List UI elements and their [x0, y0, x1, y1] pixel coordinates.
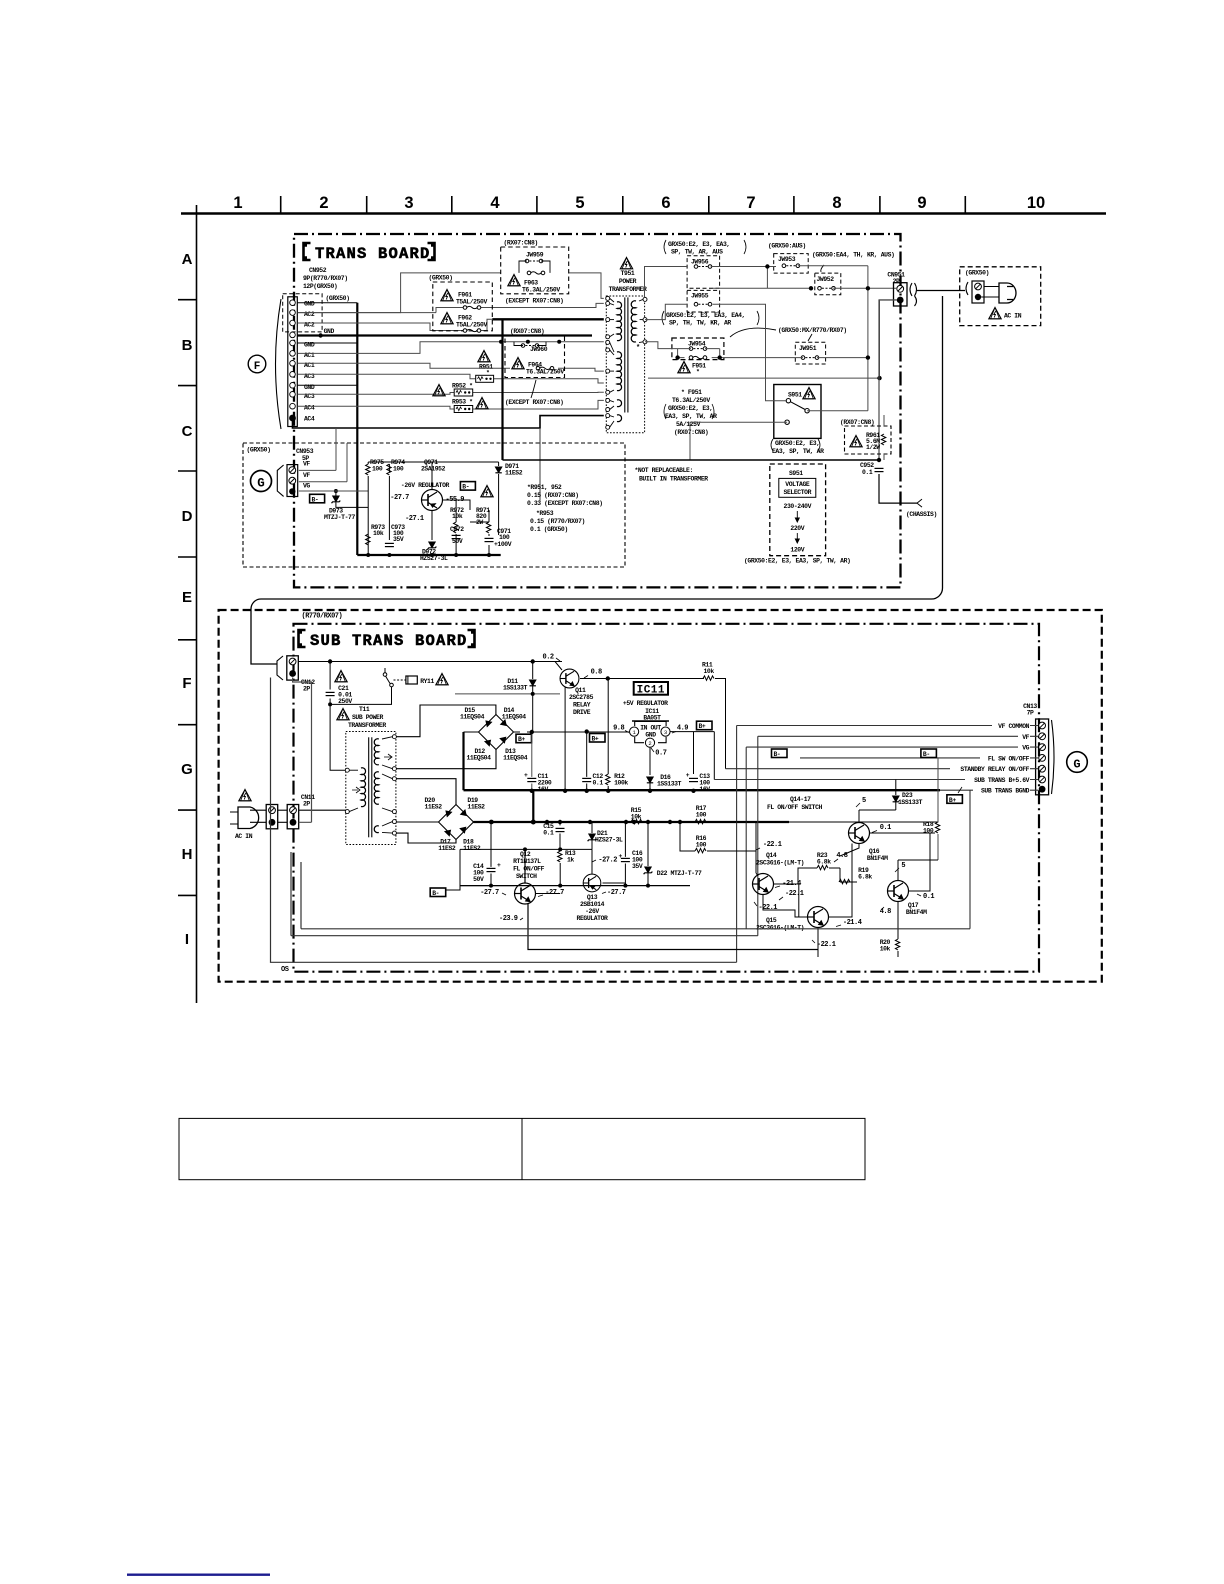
jumper JW952 box: [815, 273, 841, 295]
jumper JW954 box: [672, 338, 724, 360]
svg-text:9: 9: [917, 194, 926, 212]
svg-text:1SS133T: 1SS133T: [657, 781, 682, 788]
primary stubs: [610, 298, 614, 427]
transistor Q11: [560, 669, 579, 688]
svg-text:2P: 2P: [303, 801, 310, 808]
resistor R19: [858, 867, 872, 881]
svg-text:(CHASSIS): (CHASSIS): [906, 511, 937, 518]
svg-text:STANDBY RELAY ON/OFF: STANDBY RELAY ON/OFF: [960, 766, 1029, 773]
resistor R17: [696, 805, 707, 819]
svg-text:0.1 (GRX50): 0.1 (GRX50): [530, 526, 568, 533]
svg-text:0.33 (EXCEPT RX07:CN8): 0.33 (EXCEPT RX07:CN8): [527, 500, 603, 507]
svg-text:BUILT IN TRANSFORMER: BUILT IN TRANSFORMER: [639, 476, 708, 483]
svg-text:2SC3616-(LM-T): 2SC3616-(LM-T): [756, 860, 804, 867]
wires AC IN to CN11: [250, 810, 287, 822]
resistor R975: [370, 459, 384, 473]
bottom rail 885.6: [460, 885, 690, 887]
CN13 signal labels: [960, 723, 1029, 794]
junction dots on rail: [490, 820, 494, 824]
svg-text:SELECTOR: SELECTOR: [784, 489, 812, 496]
svg-text:-27.7: -27.7: [390, 494, 409, 502]
sub trans inner dash-dot box: [294, 624, 1040, 972]
svg-text:* F951: * F951: [681, 389, 702, 396]
svg-text:11ES2: 11ES2: [463, 845, 481, 852]
resistor R15: [631, 807, 642, 821]
fuse F961: [463, 306, 481, 310]
svg-text:(R770/RX07): (R770/RX07): [302, 613, 343, 621]
zener D972: [428, 542, 437, 549]
svg-text:(GRX50): (GRX50): [965, 270, 989, 277]
svg-text:4: 4: [490, 194, 500, 212]
boxed B+: [516, 734, 532, 743]
svg-text:(GRX50:EA4, TH, KR, AUS): (GRX50:EA4, TH, KR, AUS): [812, 252, 894, 259]
svg-text:VF: VF: [303, 461, 310, 468]
svg-text:+: +: [497, 862, 501, 869]
svg-text:2P: 2P: [303, 686, 310, 693]
warning triangle near R971: [481, 486, 493, 497]
svg-text:-22.1: -22.1: [759, 904, 778, 912]
fuse F962: [463, 329, 481, 333]
warning triangle F963: [508, 275, 520, 286]
svg-text:9.8: 9.8: [613, 725, 624, 733]
wire Q12 collector/emitter: [525, 849, 818, 949]
svg-text:REGULATOR: REGULATOR: [577, 915, 608, 922]
svg-text:100: 100: [696, 842, 707, 849]
svg-text:JW956: JW956: [691, 259, 709, 266]
svg-text:B: B: [182, 337, 193, 354]
resistor R16: [696, 835, 707, 849]
primary arrow: [352, 787, 360, 793]
svg-text:SP, TH, TW, KR, AR: SP, TH, TW, KR, AR: [669, 320, 731, 327]
svg-text:0.15 (RX07:CN8): 0.15 (RX07:CN8): [527, 492, 579, 499]
boxed B+ mid: [590, 734, 606, 743]
svg-text:EA3, SP, TW, AR: EA3, SP, TW, AR: [772, 448, 824, 455]
bracket F: [276, 299, 282, 429]
label Q14: [756, 852, 804, 867]
svg-text:T6.3AL/250V: T6.3AL/250V: [522, 287, 560, 294]
thick B- drop from bridge1: [462, 732, 464, 790]
sub trans outer dashed box: [219, 610, 1102, 982]
svg-text:SUB TRANS BGND: SUB TRANS BGND: [981, 787, 1030, 794]
secondary stubs: [639, 299, 643, 342]
svg-text:JW959: JW959: [526, 252, 544, 259]
svg-text:Q16: Q16: [869, 848, 880, 855]
primary winding group 4: [617, 415, 622, 422]
label Q16: [867, 848, 888, 862]
grey return wire CN12 bottom: [293, 678, 312, 823]
resistor R18: [923, 821, 934, 835]
svg-text:GND: GND: [304, 301, 315, 308]
boxed B-: [460, 482, 475, 491]
svg-text:TRANSFORMER: TRANSFORMER: [609, 286, 647, 293]
capacitor C11: [538, 773, 552, 793]
horizontal rail at 846: [460, 849, 592, 885]
svg-text:T951: T951: [621, 270, 635, 277]
svg-text:F962: F962: [458, 315, 472, 322]
svg-text:B-: B-: [462, 484, 469, 491]
svg-text:2: 2: [648, 740, 651, 747]
title SUB TRANS BOARD: [299, 630, 475, 650]
CN13 bracket: [1052, 720, 1055, 794]
wire CN951 bottom to C952 (grey): [879, 300, 897, 460]
switch S951 box: [774, 385, 821, 439]
svg-text:2: 2: [319, 194, 328, 212]
svg-text:JW953: JW953: [778, 256, 796, 263]
boxed B- left: [430, 888, 446, 897]
svg-text:BN1F4M: BN1F4M: [867, 855, 888, 862]
svg-text:C972: C972: [450, 526, 464, 533]
arrows: [795, 511, 799, 543]
circled G: [251, 471, 272, 492]
svg-text:AC IN: AC IN: [1004, 313, 1022, 320]
svg-text:F: F: [182, 675, 191, 692]
title TRANS BOARD: [304, 243, 435, 263]
junction B+ rail left: [530, 730, 534, 734]
svg-text:MTZJ-T-77: MTZJ-T-77: [324, 514, 355, 521]
wire CN12 top rail: [298, 661, 562, 663]
svg-text:AC IN: AC IN: [235, 833, 253, 840]
svg-text:0.1: 0.1: [880, 824, 891, 832]
dashed link to RY11: [394, 679, 406, 681]
fuse F951: [689, 356, 707, 360]
svg-text:1SS133T: 1SS133T: [898, 799, 923, 806]
svg-text:10k: 10k: [704, 668, 715, 675]
connector CN952 label: [303, 267, 348, 290]
leader to B+: [958, 787, 962, 793]
svg-text:-26V REGULATOR: -26V REGULATOR: [401, 482, 450, 489]
svg-text:F: F: [254, 361, 261, 373]
CN12 filled pin: [289, 670, 296, 677]
svg-text:50V: 50V: [473, 876, 484, 883]
svg-text:JW951: JW951: [799, 345, 817, 352]
boxed B-: [310, 494, 325, 503]
wires bridge1: [396, 705, 520, 769]
svg-text:-23.9: -23.9: [499, 915, 518, 923]
footer blue line: [127, 1574, 270, 1576]
svg-text:0.1: 0.1: [593, 780, 604, 787]
svg-text:12P(GRX50): 12P(GRX50): [303, 283, 337, 290]
svg-text:I: I: [185, 931, 189, 948]
T11 primary stubs: [349, 770, 358, 811]
svg-text:T6.3AL/250V: T6.3AL/250V: [672, 397, 710, 404]
svg-text:OS: OS: [281, 966, 289, 974]
note F951: [664, 389, 717, 436]
svg-text:100k: 100k: [614, 780, 628, 787]
svg-text:0.8: 0.8: [591, 669, 602, 677]
svg-text:11EQS04: 11EQS04: [502, 714, 527, 721]
warning triangle F951: [678, 362, 690, 373]
transistor Q12: [515, 883, 536, 904]
svg-text:10: 10: [1027, 194, 1045, 212]
svg-text:RY11: RY11: [420, 678, 434, 685]
ground bus thick: [464, 789, 941, 791]
transistor Q17: [888, 881, 909, 902]
main return wire (thick) from bus to selector: [503, 459, 880, 461]
label Q17: [906, 902, 927, 916]
trans board outline: [294, 234, 901, 587]
connector CN11 label: [301, 794, 315, 808]
svg-text:DRIVE: DRIVE: [573, 709, 591, 716]
svg-text:SUB POWER: SUB POWER: [352, 714, 383, 721]
bracket: [966, 282, 968, 295]
svg-text:CN952: CN952: [309, 267, 327, 274]
svg-text:GND: GND: [324, 328, 335, 335]
labels D20 D19 D17 D18: [425, 797, 443, 811]
relay coil RY11 box: [406, 676, 417, 684]
svg-text:-22.1: -22.1: [817, 941, 836, 949]
plug wires: [984, 286, 999, 288]
label C21: [338, 685, 352, 705]
wire AC1 pin7 to F964: [298, 363, 604, 371]
svg-text:0.7: 0.7: [655, 750, 666, 758]
wire IC11 out to C13/B+: [670, 732, 714, 780]
svg-text:SP, TW, AR, AUS: SP, TW, AR, AUS: [671, 249, 723, 256]
CN953 pins: [289, 467, 296, 474]
resistor R12: [614, 773, 628, 787]
wire D973: [336, 491, 368, 507]
svg-text:10k: 10k: [880, 946, 891, 953]
svg-text:+5V REGULATOR: +5V REGULATOR: [623, 700, 668, 707]
circled F: [248, 355, 266, 373]
svg-text:2SC3616-(LM-T): 2SC3616-(LM-T): [756, 925, 804, 932]
wire Q11 emitter down to bus: [564, 688, 566, 791]
wire GND pin5 to bus: [298, 342, 358, 344]
svg-text:100: 100: [393, 466, 404, 473]
svg-text:(RX07:CN8): (RX07:CN8): [674, 429, 708, 436]
svg-text:0.1: 0.1: [923, 893, 934, 901]
zener D973: [334, 489, 338, 493]
svg-text:(GRX50:AUS): (GRX50:AUS): [768, 243, 806, 250]
svg-text:F963: F963: [524, 280, 538, 287]
svg-text:IC11: IC11: [637, 685, 665, 697]
svg-text:B-: B-: [312, 496, 319, 503]
wires secondary to jumpers: [645, 266, 898, 460]
plug symbol: [999, 283, 1016, 303]
resistor R23: [817, 852, 831, 866]
wires bridge2: [396, 779, 456, 843]
fuse F964: [536, 367, 554, 371]
thick wire F962 out to transformer: [492, 318, 604, 320]
svg-text:220V: 220V: [790, 525, 804, 532]
IC11 pin 1: [630, 727, 639, 736]
AC plug screw pin: [975, 283, 982, 290]
svg-text:5: 5: [901, 862, 905, 870]
jumper JW955 box: [687, 290, 720, 312]
connector CN952 pin 12 (filled): [289, 415, 296, 422]
svg-text:H: H: [182, 846, 193, 863]
connector box 1: [266, 805, 278, 829]
resistor R974: [391, 459, 405, 473]
IC11 body: [632, 721, 669, 743]
svg-text:11ES2: 11ES2: [425, 804, 443, 811]
svg-text:-22.1: -22.1: [785, 890, 804, 898]
svg-text:(RX07:CN8): (RX07:CN8): [840, 419, 874, 426]
svg-text:VOLTAGE: VOLTAGE: [785, 481, 810, 488]
svg-text:B-: B-: [774, 751, 781, 758]
label IC11 BA05T: [643, 708, 661, 722]
svg-text:F964: F964: [528, 362, 542, 369]
svg-text:(RX07:CN8): (RX07:CN8): [504, 240, 538, 247]
column ticks: [281, 196, 966, 213]
svg-text:Q17: Q17: [908, 902, 919, 909]
transistor Q16: [849, 823, 870, 844]
zener D22: [644, 867, 653, 874]
CN951 filled pin: [897, 297, 904, 304]
regulator wires: [368, 462, 498, 555]
svg-text:*R953: *R953: [536, 510, 554, 517]
connector CN13 body: [1036, 719, 1049, 795]
jumper JW953 box: [774, 254, 809, 274]
connector CN953 body: [287, 465, 298, 497]
svg-text:VF: VF: [1022, 734, 1029, 741]
connector CN952 body: [288, 297, 298, 427]
GND bus vertical (thick): [356, 303, 358, 555]
secondary terminals: [643, 297, 647, 343]
wire AC plug down to chassis: [251, 296, 943, 658]
label below S951: [771, 439, 824, 455]
svg-text:GND: GND: [645, 732, 656, 739]
leader curve: [730, 328, 776, 337]
CN953 labels: [303, 461, 310, 490]
wire relay to transformer: [330, 687, 391, 704]
svg-text:B+: B+: [699, 723, 706, 730]
svg-text:-22.1: -22.1: [763, 841, 782, 849]
CN952 pin labels: [304, 301, 334, 423]
svg-text:S951: S951: [789, 470, 803, 477]
label Q13: [577, 894, 608, 922]
secondary winding: [631, 301, 636, 342]
T11 secondary winding 3: [374, 826, 379, 833]
warning triangle F961: [441, 290, 453, 301]
AC plug connector body: [972, 281, 984, 303]
svg-text:B-: B-: [432, 890, 439, 897]
svg-text:B+: B+: [949, 797, 956, 804]
primary winding group 1: [617, 302, 622, 341]
bridge diamond D17-D20: [439, 805, 474, 840]
capacitor C15: [543, 823, 554, 837]
svg-text:T5AL/250V: T5AL/250V: [456, 299, 487, 306]
svg-text:(RX07:CN8): (RX07:CN8): [510, 328, 544, 335]
connector CN951 body: [894, 283, 908, 306]
svg-text:RT1N137L: RT1N137L: [513, 858, 541, 865]
svg-text:+: +: [619, 853, 623, 860]
jumper JW956 box: [687, 256, 720, 288]
jumper JW951 box: [795, 342, 825, 364]
svg-text:B+: B+: [518, 736, 525, 743]
wire R961 taps: [883, 415, 885, 460]
CN13 pins: [1039, 722, 1046, 729]
resistor R973: [371, 524, 385, 537]
wire IC11 gnd down: [649, 747, 651, 775]
svg-text:T6.3AL/250V: T6.3AL/250V: [526, 369, 564, 376]
T11 primary terminals: [345, 768, 349, 813]
warning triangle C21: [335, 671, 347, 682]
wire chain Q12 Q13: [536, 893, 561, 895]
IC11 pin 3: [661, 727, 670, 736]
svg-text:-26V: -26V: [585, 908, 599, 915]
svg-text:1/2W: 1/2W: [866, 444, 880, 451]
boxed B+ right of IC11: [697, 721, 713, 730]
riser wires to bottom: [737, 726, 970, 963]
svg-text:8: 8: [832, 194, 841, 212]
svg-text:100: 100: [696, 812, 707, 819]
svg-text:230-240V: 230-240V: [784, 503, 812, 510]
resistor R972: [450, 507, 464, 520]
svg-text:10k: 10k: [373, 530, 384, 537]
warning triangle F962: [441, 313, 453, 324]
resistor R961: [866, 432, 880, 451]
svg-text:G: G: [1073, 758, 1080, 772]
resistor R11: [702, 662, 714, 676]
svg-text:GRX50:E2, E3, EA3, EA4,: GRX50:E2, E3, EA3, EA4,: [666, 312, 745, 319]
wire AC4 pin11 through R953: [298, 400, 604, 409]
svg-text:A: A: [182, 251, 193, 268]
wire CN951 to AC IN box: [917, 290, 965, 292]
svg-text:Q14-17: Q14-17: [790, 796, 811, 803]
warning triangle R952: [433, 385, 445, 396]
svg-text:-27.1: -27.1: [405, 515, 424, 523]
connector CN12 body: [287, 656, 299, 680]
diode D971: [495, 467, 501, 473]
T11 secondary terminals: [392, 735, 396, 835]
resistor R971: [476, 507, 490, 526]
capacitor C952: [860, 462, 874, 476]
svg-text:0.15 (R770/RX07): 0.15 (R770/RX07): [530, 518, 585, 525]
warning triangle R953: [476, 398, 488, 409]
wire AC3 pin8 through R951: [298, 374, 604, 383]
note not replaceable: [635, 467, 709, 483]
capacitor C21: [326, 692, 335, 695]
labels D15 D14 D12 D13: [460, 707, 485, 721]
wire GND pin9 to bus: [298, 384, 358, 386]
svg-text:E: E: [182, 589, 192, 606]
svg-text:JW952: JW952: [817, 276, 835, 283]
B+ rail from bridge: [527, 731, 634, 733]
CN12 screw pin: [289, 658, 296, 665]
junction dots right area: [866, 286, 870, 290]
svg-text:F961: F961: [458, 292, 472, 299]
svg-text:1: 1: [233, 194, 242, 212]
bridge diodes arrows: [485, 720, 506, 746]
svg-text:(EXCEPT RX07:CN8): (EXCEPT RX07:CN8): [505, 399, 563, 406]
svg-text:-27.7: -27.7: [607, 889, 626, 897]
svg-text:(GRX50): (GRX50): [429, 275, 453, 282]
svg-text:RELAY: RELAY: [573, 702, 591, 709]
transformer core: [625, 297, 628, 412]
fine dashed box GRX50: [243, 443, 625, 567]
primary winding group 2: [617, 352, 622, 391]
label (GRX50:E2,E3,EA3...): [664, 240, 746, 256]
wires FL switch network: [753, 822, 939, 957]
svg-text:*NOT REPLACEABLE:: *NOT REPLACEABLE:: [635, 467, 693, 474]
leader line: [531, 380, 536, 398]
diode D11: [530, 680, 536, 686]
svg-text:2SB1014: 2SB1014: [580, 901, 605, 908]
ruler line: [181, 212, 1106, 214]
svg-text:VF: VF: [303, 472, 310, 479]
GND thick bus horizontal: [298, 334, 593, 336]
leader arrow to JW951: [808, 334, 812, 341]
primary winding group 3: [617, 400, 622, 407]
svg-text:10k: 10k: [452, 513, 463, 520]
warning triangle T11: [337, 709, 349, 720]
AC IN plug symbol: [238, 807, 259, 829]
junction dots: [366, 553, 370, 557]
svg-text:*: *: [696, 369, 700, 376]
boxed B+ lower: [947, 795, 963, 804]
svg-text:120V: 120V: [790, 547, 804, 554]
svg-text:9P(R770/RX07): 9P(R770/RX07): [303, 275, 348, 282]
